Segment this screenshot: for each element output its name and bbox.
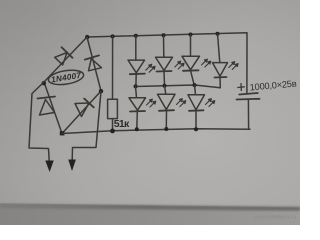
diode D4 lower-right arm of bridge [62,91,101,134]
label 1N4007 (ellipse + text) [47,68,84,87]
junction dot bottom rail / LED col3 [194,127,198,131]
LED D8 row1 col4 [213,34,239,88]
diode D2 upper-right arm of bridge [85,37,102,91]
junction dot middle rail col2 [163,84,167,88]
LED D11 row2 col3 [188,85,215,129]
junction dot bridge top vertex (+) [85,35,89,39]
wire AC input right: bridge right vertex down then left to arrow [72,91,101,160]
junction dot bridge right vertex (AC) [99,89,103,93]
junction dot bottom rail / LED col2 [164,127,168,131]
wire resistor bottom to bottom rail [112,119,114,131]
paper edge shadow line [0,203,300,210]
junction dot top rail / resistor column [111,34,115,38]
junction dot bottom rail / resistor [110,129,115,134]
wire bottom rail (-) [62,129,250,134]
resistor R1 51k [108,99,118,118]
capacitor C1 bottom plate [237,98,260,101]
junction dot middle rail col1 [134,84,138,88]
wire AC input left: bridge left vertex down to arrow [29,82,49,161]
junction dot top rail / LED column 3 [189,33,193,37]
bottom table band below paper edge [0,203,300,225]
LED D9 row2 col1 [129,86,156,129]
LED D5 row1 col1 [128,36,155,87]
junction dot top rail / LED column 1 [134,34,138,38]
junction dot bottom rail / LED col1 [135,127,139,131]
AC input arrow right [68,160,76,172]
junction dot top rail / LED column 4 [216,32,220,36]
junction dot bridge left vertex (AC) [42,81,46,85]
LED D10 row2 col2 [158,86,186,129]
AC input arrow left [45,161,53,173]
wire top rail (+) from bridge top vertex to capacitor branch [87,33,247,93]
svg-text:51к: 51к [114,118,130,130]
LED D6 row1 col2 [156,35,185,85]
capacitor polarity plus sign [238,84,245,91]
capacitor C1 top plate [239,93,257,95]
wire capacitor bottom to bottom rail [247,100,249,130]
junction dot top rail / LED column 2 [162,33,166,37]
svg-text:uSamodelkina.ru: uSamodelkina.ru [254,214,296,220]
LED D7 row1 col3 [182,35,211,86]
diode D1 upper-left arm of bridge [44,37,87,82]
junction dot middle rail col3 [193,83,197,87]
wire middle rail [136,85,221,88]
diode D3 lower-left arm of bridge [38,82,63,134]
junction dot bridge bottom vertex (-) [60,131,65,135]
wire resistor column from top rail [112,36,114,99]
